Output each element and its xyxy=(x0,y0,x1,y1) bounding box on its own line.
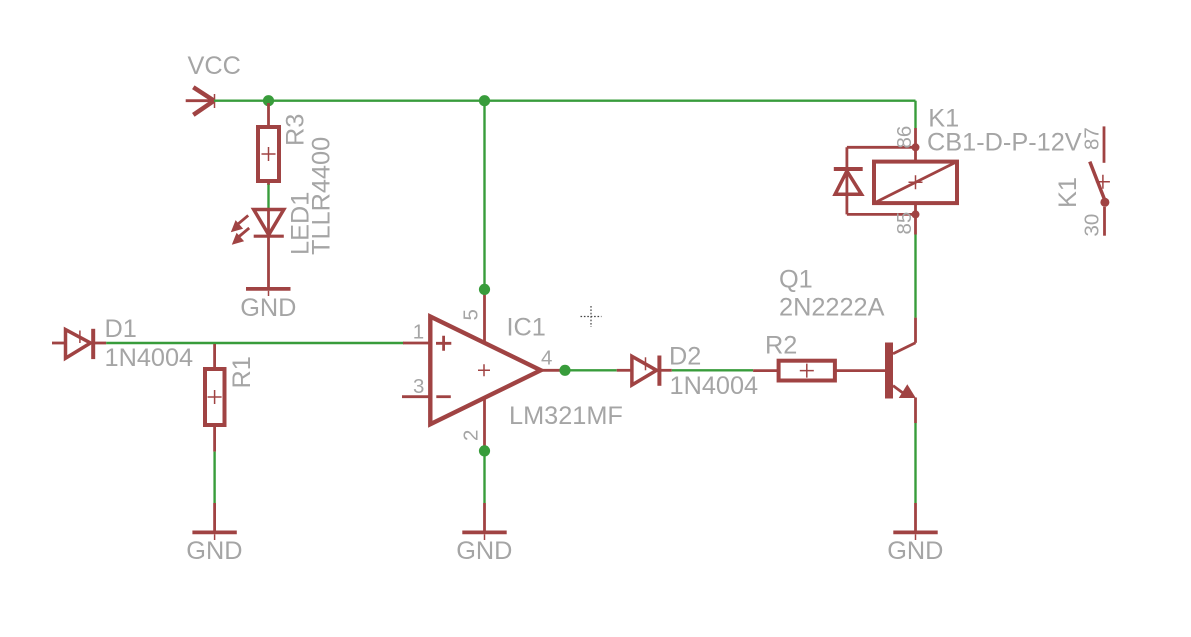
LED LED1 xyxy=(254,210,284,288)
wire R3 to LED1 xyxy=(267,185,269,210)
ground pin under op-amp xyxy=(483,503,486,531)
resistor R1 xyxy=(205,344,225,452)
relay flyback diode xyxy=(834,147,863,214)
pin 4 line xyxy=(541,369,565,372)
ground pin under R1 xyxy=(213,503,216,531)
junction at coil pin 85 xyxy=(912,210,920,218)
svg-text:GND: GND xyxy=(186,537,242,565)
resistor R3 xyxy=(258,103,279,185)
minus input marker xyxy=(436,395,451,398)
junction at pin 2 xyxy=(479,445,490,456)
svg-text:85: 85 xyxy=(893,212,916,235)
junction at op-amp supply branch xyxy=(479,95,490,106)
svg-text:1N4004: 1N4004 xyxy=(670,372,759,400)
LED1 light arrows xyxy=(231,215,249,244)
pin 2 line xyxy=(483,398,486,451)
svg-text:2: 2 xyxy=(460,430,483,441)
ground under op-amp xyxy=(462,532,506,540)
ground under R1 xyxy=(192,532,236,540)
svg-text:D1: D1 xyxy=(105,315,137,343)
junction at pin 4 output xyxy=(559,365,570,376)
junction at R3 top xyxy=(263,95,274,106)
supply symbol VCC xyxy=(186,87,215,115)
diode D2 xyxy=(617,356,672,386)
svg-text:3: 3 xyxy=(413,375,424,398)
relay contact K1 xyxy=(1090,126,1110,235)
pin 1 line xyxy=(403,342,429,345)
wire VCC horizontal rail xyxy=(214,99,916,101)
junction at pin 5 xyxy=(479,284,490,295)
svg-text:GND: GND xyxy=(887,537,943,565)
svg-text:R1: R1 xyxy=(228,356,256,388)
mouse crosshair cursor xyxy=(581,306,602,327)
svg-text:4: 4 xyxy=(541,347,552,370)
svg-text:R3: R3 xyxy=(282,114,310,146)
wire op-amp output to D2 xyxy=(565,369,617,371)
transistor Q1 xyxy=(885,343,916,399)
op-amp origin cross xyxy=(478,364,490,376)
svg-text:87: 87 xyxy=(1081,127,1104,150)
svg-text:1: 1 xyxy=(413,321,424,344)
svg-text:1N4004: 1N4004 xyxy=(105,344,194,372)
junction at coil pin 86 xyxy=(912,143,920,151)
svg-text:CB1-D-P-12V: CB1-D-P-12V xyxy=(927,128,1082,156)
svg-text:30: 30 xyxy=(1081,214,1104,237)
svg-text:R2: R2 xyxy=(765,332,797,360)
wire VCC drop to relay K1 xyxy=(914,101,916,128)
wire R1 to ground xyxy=(213,452,215,503)
svg-text:TLLR4400: TLLR4400 xyxy=(308,137,336,255)
resistor R2 xyxy=(753,361,835,381)
svg-text:IC1: IC1 xyxy=(507,314,546,342)
plus input marker xyxy=(436,336,451,351)
svg-text:K1: K1 xyxy=(1054,177,1082,208)
relay K1 coil xyxy=(874,128,957,235)
svg-text:GND: GND xyxy=(240,294,296,322)
svg-text:2N2222A: 2N2222A xyxy=(779,294,885,322)
wire VCC drop to op-amp pin 5 xyxy=(483,101,485,290)
wire diode top to coil xyxy=(847,146,916,149)
wire emitter to ground xyxy=(914,423,916,503)
op-amp IC1 xyxy=(430,317,540,425)
svg-text:86: 86 xyxy=(893,126,916,149)
svg-text:D2: D2 xyxy=(669,343,701,371)
diode D1 xyxy=(52,329,106,359)
svg-text:5: 5 xyxy=(460,309,483,320)
ground under Q1 xyxy=(893,532,937,540)
wire diode bottom to coil xyxy=(847,213,916,216)
ground under LED1 xyxy=(246,289,291,296)
svg-text:LM321MF: LM321MF xyxy=(509,402,623,430)
emitter pin line xyxy=(914,398,917,424)
ground pin under Q1 xyxy=(914,503,917,531)
wire R2 to Q1 base xyxy=(835,369,886,372)
contact pivot dot xyxy=(1100,198,1109,207)
wire pin 2 to ground xyxy=(483,451,485,503)
pin 5 line xyxy=(483,289,486,342)
wire D1 to op-amp input xyxy=(106,342,404,344)
wire collector to relay xyxy=(914,235,916,318)
svg-text:VCC: VCC xyxy=(188,52,241,80)
svg-text:Q1: Q1 xyxy=(779,266,813,294)
svg-text:GND: GND xyxy=(456,537,512,565)
collector pin line xyxy=(914,318,917,343)
wire D2 to R2 xyxy=(672,369,753,371)
pin 3 line xyxy=(402,395,429,398)
